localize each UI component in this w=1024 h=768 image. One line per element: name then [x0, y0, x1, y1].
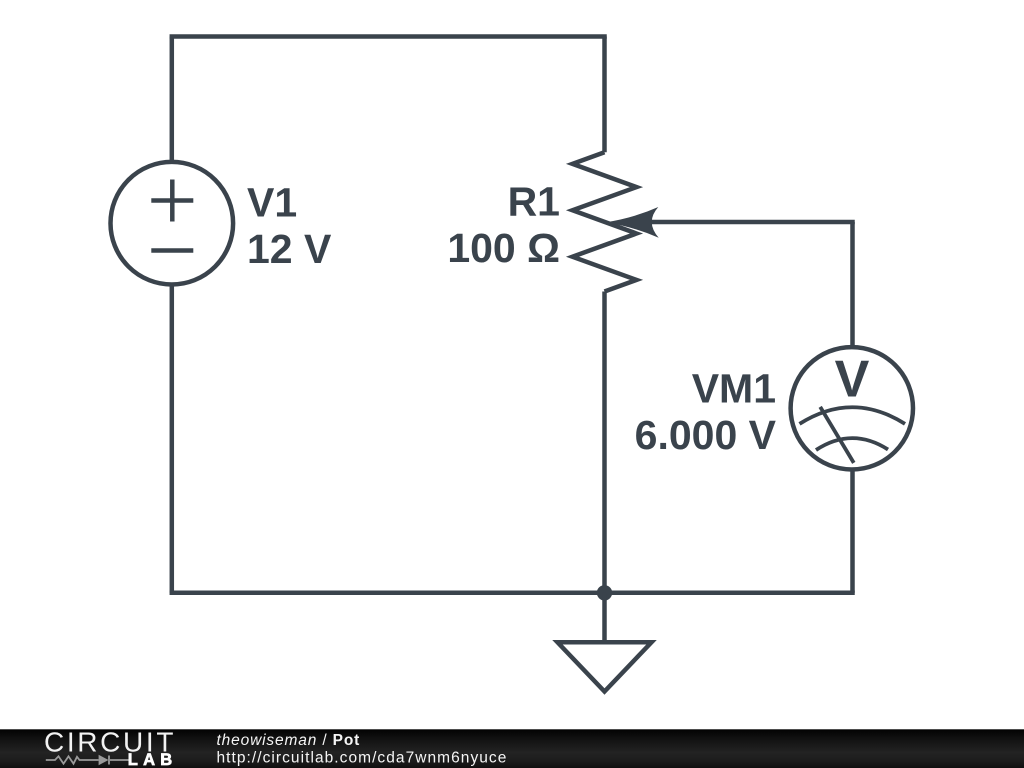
wire bottom ground rail — [172, 591, 853, 596]
wire R1 bottom lead — [602, 292, 607, 593]
CircuitLab logo diode triangle — [99, 755, 109, 765]
svg-text:100 Ω: 100 Ω — [447, 225, 560, 271]
wire left branch upper (V1+ up to top rail) — [170, 37, 175, 162]
svg-text:12 V: 12 V — [247, 226, 332, 272]
svg-text:V1: V1 — [247, 180, 297, 226]
voltmeter VM1 scale lower arc — [816, 438, 888, 450]
wire VM1 bottom lead — [850, 471, 855, 593]
svg-text:http://circuitlab.com/cda7wnm6: http://circuitlab.com/cda7wnm6nyuce — [217, 749, 508, 766]
svg-text:R1: R1 — [508, 179, 560, 225]
CircuitLab logo resistor squiggle and wire — [46, 756, 130, 765]
wire top rail from V1+ to R1 top — [172, 34, 605, 39]
voltmeter VM1 body circle — [791, 347, 913, 469]
voltmeter VM1 scale upper arc — [800, 407, 906, 424]
potentiometer R1 zigzag body — [573, 152, 637, 291]
footer bar — [0, 729, 1024, 768]
wire VM1 top lead — [850, 222, 855, 346]
svg-text:LAB: LAB — [128, 751, 178, 768]
svg-text:6.000 V: 6.000 V — [635, 412, 777, 458]
svg-text:V: V — [835, 351, 870, 409]
potentiometer R1 wiper arrow — [606, 207, 659, 238]
wire left branch lower (V1- down to ground rail) — [170, 285, 175, 593]
voltage source V1 (12 V DC source symbol) — [111, 162, 234, 285]
wire ground stub — [602, 593, 607, 643]
svg-text:theowiseman / Pot: theowiseman / Pot — [217, 732, 361, 749]
svg-text:VM1: VM1 — [692, 366, 776, 412]
node junction dot (R1 bottom / ground rail / VM1 return) — [597, 585, 612, 600]
wire wiper horizontal run to VM1 branch — [649, 220, 853, 225]
voltmeter VM1 needle — [820, 407, 854, 463]
ground symbol — [558, 642, 652, 691]
wire R1 top lead — [602, 37, 607, 153]
